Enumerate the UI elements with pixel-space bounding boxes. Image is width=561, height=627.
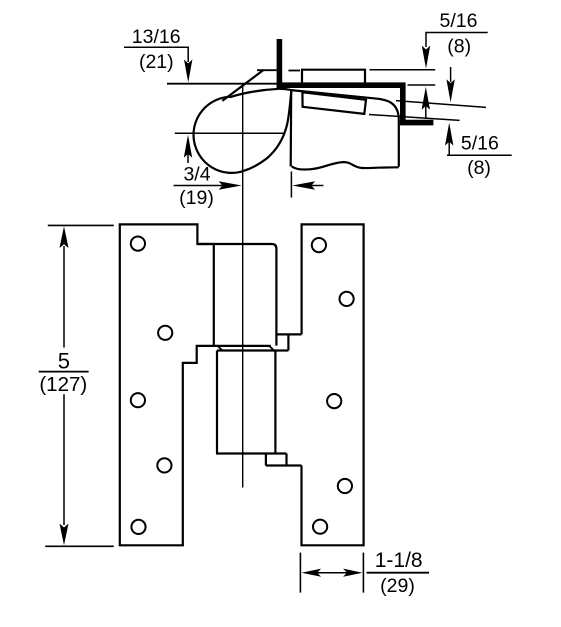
svg-text:(8): (8) (447, 35, 471, 57)
svg-text:13/16: 13/16 (132, 26, 181, 48)
svg-text:5/16: 5/16 (440, 10, 478, 32)
svg-text:5: 5 (58, 348, 70, 373)
svg-text:(29): (29) (380, 575, 415, 597)
svg-text:(19): (19) (179, 187, 214, 209)
svg-text:(8): (8) (467, 157, 491, 179)
svg-text:1-1/8: 1-1/8 (375, 549, 423, 572)
svg-text:(127): (127) (39, 373, 87, 396)
svg-text:(21): (21) (139, 51, 174, 73)
svg-text:3/4: 3/4 (183, 164, 210, 186)
svg-text:5/16: 5/16 (461, 133, 499, 155)
